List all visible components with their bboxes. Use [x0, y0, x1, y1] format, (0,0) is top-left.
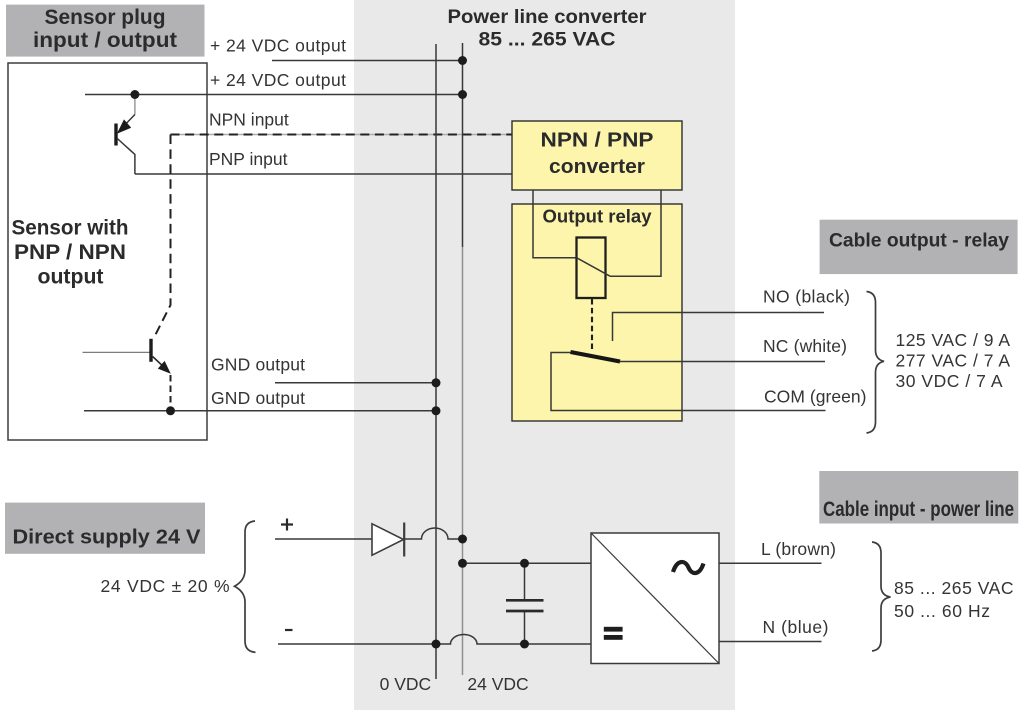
svg-text:125 VAC / 9 A: 125 VAC / 9 A [896, 330, 1011, 350]
transistor Q1 PNP collector wire [134, 95, 136, 115]
wire NPN input gray underlay [171, 134, 513, 136]
svg-text:NO (black): NO (black) [763, 287, 850, 307]
relay switch lever [571, 352, 621, 362]
minus sign [285, 629, 293, 631]
svg-text:GND output: GND output [211, 388, 305, 408]
svg-text:converter: converter [549, 155, 645, 178]
wire COM [551, 353, 826, 411]
svg-text:Sensor with: Sensor with [12, 217, 129, 240]
NPN PNP converter box U1 [512, 121, 682, 190]
wire NO contact [613, 313, 825, 342]
svg-text:Output relay: Output relay [543, 206, 653, 227]
wire GND output 2 [84, 410, 436, 412]
brace relay ratings [867, 292, 885, 434]
bus 24 VDC dark segment [462, 43, 464, 247]
svg-text:NPN / PNP: NPN / PNP [541, 129, 654, 152]
transistor Q2 emitter dashed wire [170, 375, 172, 406]
wire diode to bus with hop [404, 528, 462, 539]
relay coil K1 [577, 238, 606, 299]
transistor Q2 collector dashed wire [154, 135, 171, 339]
svg-text:24 VDC ± 20 %: 24 VDC ± 20 % [101, 576, 230, 596]
svg-text:0 VDC: 0 VDC [380, 674, 432, 694]
wire N [719, 641, 822, 643]
svg-text:L (brown): L (brown) [761, 539, 836, 559]
transistor Q2 NPN base wire [83, 351, 150, 353]
bus 0 VDC [435, 44, 437, 679]
wire +24 VDC output 1 [272, 60, 463, 62]
wire NC contact [620, 361, 825, 363]
sensor box [8, 63, 207, 440]
junction dots [458, 56, 467, 65]
transistor Q1 emitter wire [117, 139, 135, 175]
svg-text:+ 24 VDC output: + 24 VDC output [210, 36, 346, 56]
sensor plug header box [6, 5, 205, 57]
svg-text:GND output: GND output [211, 355, 305, 375]
transistor Q2 emitter wire [153, 357, 166, 370]
bus 24 VDC gray segment [462, 247, 464, 675]
transistor Q2 base bar [149, 339, 152, 362]
capacitor C1 [524, 563, 526, 599]
relay actuator dashed link [591, 299, 593, 352]
gray converter band [354, 0, 735, 710]
svg-text:+ 24 VDC output: + 24 VDC output [210, 70, 346, 90]
svg-text:Power line converter: Power line converter [448, 6, 647, 28]
DC equals symbol [604, 627, 623, 632]
wire minus supply with hop [278, 635, 591, 645]
svg-text:50 ... 60 Hz: 50 ... 60 Hz [894, 601, 990, 621]
svg-text:COM (green): COM (green) [764, 387, 867, 407]
wire +24 VDC output 2 [85, 94, 463, 96]
svg-text:PNP / NPN: PNP / NPN [14, 241, 126, 264]
svg-text:85 ... 265 VAC: 85 ... 265 VAC [894, 578, 1014, 598]
svg-text:input / output: input / output [33, 29, 177, 52]
direct supply header box [5, 503, 205, 554]
svg-text:30 VDC / 7 A: 30 VDC / 7 A [896, 371, 1003, 391]
transistor Q1 emitter arrow [117, 119, 131, 133]
svg-text:NC (white): NC (white) [763, 336, 847, 356]
wire plus supply [275, 538, 372, 540]
wire NPN input dashed [171, 134, 513, 136]
svg-text:85 ... 265 VAC: 85 ... 265 VAC [479, 29, 616, 51]
connector wires U1 to relay box [532, 190, 534, 204]
output relay box [512, 204, 682, 421]
wire PNP input [135, 173, 512, 175]
relay coil wire left [533, 204, 577, 258]
transistor Q2 emitter arrow [158, 361, 171, 374]
cable output header box [820, 220, 1018, 274]
cable input header box [819, 471, 1018, 524]
wire 24v rail to converter [463, 562, 592, 564]
svg-text:Cable output - relay: Cable output - relay [829, 231, 1009, 252]
svg-text:PNP input: PNP input [209, 149, 288, 169]
svg-text:N (blue): N (blue) [763, 617, 829, 637]
brace power line ratings [872, 542, 891, 651]
svg-text:277 VAC / 7 A: 277 VAC / 7 A [896, 351, 1011, 371]
svg-text:Sensor plug: Sensor plug [45, 6, 166, 29]
AC tilde symbol [673, 562, 704, 573]
diode D1 [372, 524, 404, 555]
svg-text:output: output [38, 266, 104, 289]
svg-text:Cable input - power line: Cable input - power line [823, 498, 1014, 521]
power converter box U2 [591, 533, 719, 664]
svg-text:NPN input: NPN input [209, 110, 289, 130]
brace direct supply [235, 521, 256, 652]
svg-text:24 VDC: 24 VDC [467, 674, 528, 694]
wire GND output 1 [275, 382, 436, 384]
svg-text:Direct supply 24 V: Direct supply 24 V [13, 526, 201, 549]
wire L [719, 562, 822, 564]
plus sign [281, 519, 293, 531]
transistor Q1 base bar [114, 124, 117, 146]
relay coil wire right [610, 204, 661, 276]
relay coil diagonal [577, 258, 611, 277]
